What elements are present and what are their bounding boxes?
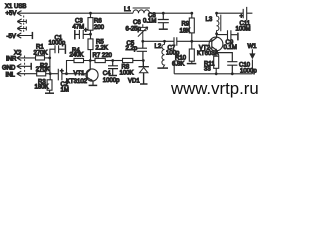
connector X2 label [14,51,22,57]
ground (C4) [109,75,118,77]
varicap VD1 [139,61,149,84]
resistor R8 label [120,64,134,76]
resistor R10 label [172,56,187,68]
node G junction C8 [162,12,165,15]
capacitor C3 label [73,18,89,33]
antenna W1 [249,49,255,59]
wire bottom rail [174,60,252,74]
resistor R11 label [204,62,215,73]
resistor R5 [88,34,93,60]
svg-text:INL: INL [6,73,16,79]
resistor R2 [37,72,51,76]
capacitor C3 [76,30,90,39]
node A junction R1 out [48,57,51,60]
capacitor C11 label [236,14,251,32]
connector X1 pin +5V arrow [17,11,22,16]
svg-text:VT1: VT1 [74,71,86,77]
connector X1 label [5,4,26,10]
resistor R4 label [70,48,84,59]
antenna W1 label [248,44,258,50]
svg-text:0.1M: 0.1M [143,19,156,25]
inductor L3 label [206,17,213,23]
resistor R3 label [35,80,49,91]
node L junction VT2 collector [215,32,218,35]
ground (L2) [157,67,168,69]
connector X2 pin INR arrow [17,55,36,60]
varicap VD1 label [128,79,140,85]
ground (VD1) [140,83,148,85]
resistor R7 label [93,53,113,59]
svg-text:1M: 1M [61,88,69,94]
node -5V label [7,34,16,40]
ground (X2 GND pin) [30,63,32,70]
capacitor C9 label [224,40,237,51]
svg-text:C6: C6 [133,20,141,26]
capacitor C5 [137,41,147,60]
ground (-5V pin) [31,32,33,39]
svg-text:200: 200 [94,25,105,31]
capacitor C5 label [126,41,138,52]
svg-text:2.2K: 2.2K [96,46,108,52]
resistor R3 [47,74,52,93]
capacitor C10 label [239,63,257,75]
node I junction L2 top [163,40,166,43]
transistor VT2 [209,34,223,53]
svg-text:240K: 240K [70,53,84,59]
svg-text:L1: L1 [124,7,131,13]
wire tank row [143,40,165,42]
node P junction R11 bottom [215,72,218,75]
capacitor C1 [50,45,65,58]
trimmer capacitor C6 [138,24,148,40]
node F junction R8 / VD1 / C5 [142,59,145,62]
wire rail over R6 [89,12,92,15]
wire +5V rail [17,12,133,14]
wire rail L1 to C8 [150,12,193,14]
inductor L2 label [155,44,162,50]
svg-text:270K: 270K [36,67,50,73]
connector X1 pin D+ arrow [17,26,26,31]
ground (C8) [159,28,168,30]
resistor R5 label [96,40,108,52]
node E junction R7/R8/C4 [111,59,114,62]
resistor R6 [88,13,93,33]
capacitor C8 label [143,13,156,25]
capacitor C4 [108,61,118,76]
node INR label [6,57,17,63]
capacitor C10 [216,53,237,73]
capacitor C1 label [49,36,66,47]
svg-text:W1: W1 [248,44,258,50]
resistor R1 label [34,45,48,57]
node C junction collector VT1 [89,59,92,62]
svg-text:100M: 100M [236,26,251,32]
svg-text:1000p: 1000p [49,41,66,47]
inductor L1 label [124,7,131,13]
svg-text:2.2p: 2.2p [126,46,138,52]
resistor R9 label [180,22,191,35]
svg-text:0.1M: 0.1M [224,45,237,51]
svg-text:1000p: 1000p [103,78,120,84]
node M junction R2 out [49,72,52,75]
node B junction base VT1 / R4 [65,72,87,75]
svg-text:100K: 100K [120,70,134,76]
transistor VT1 label [66,71,88,85]
trimmer capacitor C6 label [126,20,142,32]
svg-text:180K: 180K [35,85,49,91]
connector X2 pin INL arrow [17,71,37,76]
resistor R7 [91,58,112,62]
connector X2 pin GND arrow [17,64,31,69]
capacitor C9 [216,30,237,39]
inductor L2 [162,41,165,67]
capacitor C11 [218,7,253,20]
capacitor C4 label [103,71,120,84]
svg-text:R9: R9 [182,22,190,28]
svg-text:VD1: VD1 [128,79,140,85]
resistor R10 [189,41,194,63]
resistor R9 [189,13,194,40]
capacitor C2 [52,69,67,81]
ground (R3) [45,92,54,94]
inductor L1 [133,8,150,13]
svg-text:L3: L3 [206,17,213,23]
svg-text:47M: 47M [73,24,85,30]
svg-text:GND: GND [2,65,16,71]
svg-text:-5V: -5V [7,34,16,40]
wire node A to node M [49,58,51,74]
resistor R2 label [36,64,50,74]
node J junction rail R9 [190,12,193,15]
svg-text:33: 33 [204,67,211,73]
wire rail to L3 [215,12,218,15]
connector X1 pin D- arrow [17,19,26,24]
transistor VT1 [86,61,98,86]
svg-text:KT3102: KT3102 [66,79,88,85]
node N junction VT2 emitter [215,51,218,54]
inductor L3 [217,13,221,33]
node +5V label [6,11,17,17]
resistor R1 [36,56,50,60]
node GND label [2,65,16,71]
svg-text:www.vrtp.ru: www.vrtp.ru [170,79,259,98]
capacitor C8 [158,13,169,29]
node K junction VT2 base [190,40,211,43]
resistor R6 label [94,19,105,31]
resistor R8 [113,58,142,62]
svg-text:+5V: +5V [6,11,17,17]
svg-text:+: + [84,28,88,34]
connector X1 body dashed line [23,16,25,34]
capacitor C2 label [60,69,69,94]
ground (R10) [187,63,197,65]
svg-text:INR: INR [6,57,17,63]
connector X2 body dashed line [24,56,26,77]
ground (VT1 emitter) [89,84,98,86]
ground (C1) [64,44,66,54]
svg-text:R6: R6 [94,19,102,25]
svg-text:X1 USB: X1 USB [5,4,26,10]
connector X1 pin -5V arrow [17,33,32,38]
node D junction R6 / C3 / R5 [89,33,92,36]
ground (C3) [74,30,76,40]
node Q junction C10 bottom [231,72,234,75]
svg-text:18K: 18K [180,28,191,34]
svg-text:L2: L2 [155,44,162,50]
resistor R11 [214,53,219,73]
resistor R4 [67,58,90,73]
capacitor C7 [165,37,191,46]
transistor VT2 label [197,46,219,58]
node INL label [6,73,16,79]
node H junction tank top [141,40,144,43]
capacitor C7 label [166,45,180,56]
watermark www.vrtp.ru [170,79,259,98]
ground (C9) [237,33,239,41]
